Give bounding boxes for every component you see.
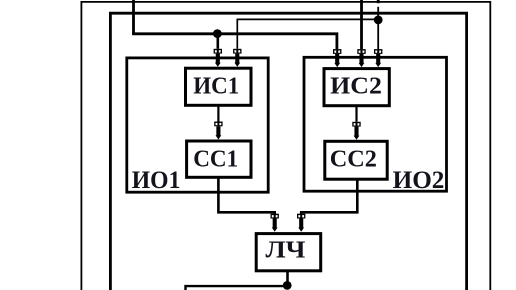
svg-text:ЛЧ: ЛЧ [266,237,306,264]
node: junction dot at x=378 [374,16,383,25]
svg-text:ИС1: ИС1 [193,73,239,100]
connector arrow into ИС2 (middle) [357,49,365,67]
wire: thick vertical feed x=361.5 (cut at image top) [360,0,363,49]
wire: СС1 down and right to ЛЧ [218,178,274,214]
svg-text:СС1: СС1 [193,145,238,172]
block СС1 [187,141,251,177]
wire: СС2 down and left to ЛЧ [301,180,357,214]
svg-text:ИО1: ИО1 [132,167,181,194]
wire: ИС2 to СС2 [355,106,357,122]
connector arrow into ЛЧ (left) [271,214,279,232]
wire: ИС1 to СС1 [217,106,219,122]
connector arrow into СС1 [214,122,222,140]
node: junction dot on bus [213,29,222,38]
block ИО2 enclosure [304,57,447,191]
connector arrow into ИС2 (left) [333,49,341,67]
connector arrow into ИС2 (right) [374,49,382,67]
block ИО1 enclosure [127,58,268,192]
wire: bottom horizontal to left, then down off-image [186,286,288,290]
outer enclosure rectangle (thin, open bottom) [81,2,490,290]
wire: drop from dot to ИС1 [217,34,220,49]
svg-text:ИО2: ИО2 [393,167,445,194]
wire: horizontal bus y=33.8 [132,34,337,49]
wire: top stub above outer border at x=378 [377,0,380,3]
block ИС1 [186,68,252,105]
block ИС2 [324,69,389,106]
block ЛЧ [256,234,321,271]
svg-text:ИС2: ИС2 [330,73,382,100]
connector arrow into ИС1 (left) [214,49,222,67]
node: junction dot at bottom [283,281,292,290]
svg-text:СС2: СС2 [330,146,377,173]
wire: corner feed y=19.4 to right [237,19,378,48]
block СС2 [325,141,387,179]
connector arrow into ЛЧ (right) [297,214,305,232]
wire: top-left vertical feed (cut at image top) [132,0,135,34]
connector arrow into ИС1 (right) [233,49,241,67]
wire: vertical from stub through dot to ИС2 [377,7,379,49]
wire: ЛЧ output down [286,271,289,285]
inner enclosure rectangle (thick, open bottom) [110,13,466,290]
connector arrow into СС2 [352,122,360,140]
